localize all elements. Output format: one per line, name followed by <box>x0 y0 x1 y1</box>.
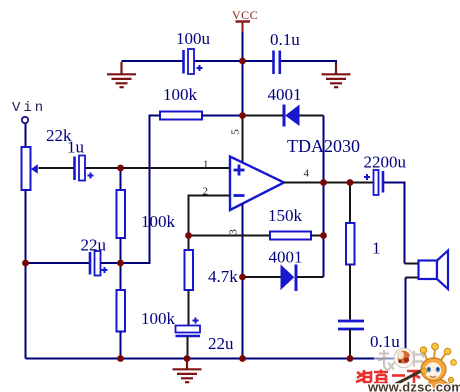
svg-text:100k: 100k <box>141 309 176 328</box>
svg-text:1: 1 <box>203 159 209 171</box>
wire R1 right lead <box>202 115 243 117</box>
wire D1 to output column <box>299 115 324 117</box>
wire 0.1u to ground 2 <box>281 61 337 67</box>
wire node A down to R3 <box>120 263 122 290</box>
ground G3 <box>173 359 202 383</box>
wire 22u to node A <box>101 262 121 264</box>
svg-text:150k: 150k <box>268 206 303 225</box>
wire 4.7k bottom lead <box>188 290 190 326</box>
wire diode D1 anode run <box>243 115 284 117</box>
resistor R6 1 body <box>346 223 355 265</box>
resistor R1 100k top body <box>160 112 202 120</box>
watermark circle badge <box>394 348 413 367</box>
wire R2 bottom to node A <box>120 238 122 263</box>
capacitor C3 1u <box>75 156 94 181</box>
diode D1 4001 (cathode left) <box>283 105 300 127</box>
wire output column vertical <box>323 116 325 278</box>
svg-text:VCC: VCC <box>232 8 258 22</box>
wire 4.7k top lead <box>188 236 190 251</box>
wire node pin1 down to R2 <box>120 168 122 190</box>
wire pot bottom to ground rail <box>25 190 27 359</box>
wire 0.1u to rail <box>349 329 351 359</box>
wire 1u to pin1 <box>85 167 229 169</box>
wire top rail left segment <box>122 60 183 62</box>
svg-text:22u: 22u <box>208 334 234 353</box>
svg-text:4.7k: 4.7k <box>208 267 238 286</box>
resistor R2 100k body <box>117 190 126 238</box>
wire R1 left lead down to node A <box>121 116 161 264</box>
wire node A left to 22u <box>26 262 90 264</box>
svg-text:www.dzsc.com: www.dzsc.com <box>367 380 460 392</box>
wire D2 cathode to output column <box>298 276 324 278</box>
wire 2200u to speaker column <box>384 183 405 264</box>
mascot <box>396 343 458 392</box>
speaker LS1 <box>405 251 449 359</box>
wire Vin to pot <box>25 124 27 148</box>
ground G2 <box>322 63 351 87</box>
svg-text:22u: 22u <box>81 236 107 255</box>
svg-text:2200u: 2200u <box>364 153 407 172</box>
svg-text:5: 5 <box>230 129 242 135</box>
capacitor C1 100u <box>184 49 203 74</box>
wire R3 to rail <box>120 332 122 359</box>
capacitor C2 0.1u <box>274 51 280 75</box>
watermark weiku red text <box>356 370 422 384</box>
wire pin3 vertical to rail <box>242 204 244 359</box>
svg-text:3: 3 <box>228 229 240 235</box>
wire feedback node to 150k <box>189 235 271 237</box>
wire bottom ground rail <box>26 358 406 360</box>
svg-text:100u: 100u <box>176 29 211 48</box>
power VCC <box>232 8 258 34</box>
svg-text:2: 2 <box>203 186 209 198</box>
ground G1 <box>107 62 136 87</box>
resistor R3 100k body <box>117 290 126 332</box>
resistor R5 4.7k body <box>185 250 194 290</box>
svg-text:1u: 1u <box>67 138 85 157</box>
svg-text:Vin: Vin <box>12 100 46 116</box>
wire R6 top lead <box>349 183 351 224</box>
svg-text:4001: 4001 <box>269 248 303 267</box>
svg-text:4001: 4001 <box>268 85 302 104</box>
svg-text:4: 4 <box>304 168 310 180</box>
svg-text:0.1u: 0.1u <box>270 30 300 49</box>
wire output to 2200u <box>350 182 374 184</box>
wire VCC node down to diode node <box>242 61 244 115</box>
svg-text:100k: 100k <box>163 85 198 104</box>
svg-text:TDA2030: TDA2030 <box>287 136 360 156</box>
watermark white glow underlay <box>374 347 429 369</box>
resistor R4 150k body <box>270 232 311 240</box>
watermark zhaoxinpian text <box>378 350 423 371</box>
wire pot wiper to 1u <box>39 167 75 169</box>
wire 100u to VCC node <box>194 60 243 62</box>
wire R6 bottom lead <box>349 265 351 320</box>
svg-text:100k: 100k <box>141 212 176 231</box>
wire output pin4 <box>284 182 350 184</box>
wire VCC node to 0.1u <box>243 60 273 62</box>
wire 22u to rail <box>187 336 189 359</box>
capacitor C4 22u <box>90 251 108 276</box>
potentiometer RP 22k <box>22 147 38 190</box>
op-amp U1 TDA2030 <box>230 157 284 211</box>
wire 150k right lead <box>311 235 324 237</box>
svg-text:0.1u: 0.1u <box>370 332 400 351</box>
diode D2 4001 (cathode right) <box>281 265 298 292</box>
capacitor C5 22u vertical <box>176 318 201 337</box>
wire pin5 stub <box>242 116 244 164</box>
capacitor C6 2200u <box>364 170 383 195</box>
wire pin2 stub <box>189 196 230 236</box>
wire bottom diode anode run <box>243 276 282 278</box>
svg-text:1: 1 <box>372 239 381 258</box>
wire VCC drop to top rail <box>242 32 244 61</box>
capacitor C7 0.1u vertical <box>338 321 364 329</box>
node Vin terminal <box>12 100 46 123</box>
